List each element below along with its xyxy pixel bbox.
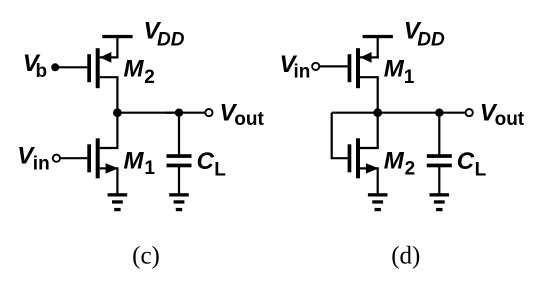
svg-text:(c): (c) (132, 243, 160, 270)
svg-text:DD: DD (157, 30, 185, 51)
svg-text:b: b (36, 61, 48, 82)
svg-text:L: L (214, 159, 226, 180)
svg-text:C: C (457, 148, 475, 175)
svg-text:M: M (384, 148, 405, 175)
svg-text:L: L (475, 159, 487, 180)
svg-text:1: 1 (404, 67, 415, 88)
svg-text:2: 2 (405, 158, 416, 179)
svg-text:in: in (294, 62, 311, 83)
svg-text:2: 2 (144, 67, 155, 88)
svg-text:out: out (495, 109, 525, 130)
svg-text:in: in (33, 153, 50, 174)
svg-text:M: M (124, 55, 145, 82)
svg-text:out: out (234, 109, 264, 130)
svg-text:C: C (197, 148, 215, 175)
svg-text:M: M (384, 55, 405, 82)
svg-text:1: 1 (144, 158, 155, 179)
svg-text:M: M (124, 148, 145, 175)
svg-text:(d): (d) (391, 243, 420, 270)
svg-text:DD: DD (417, 30, 445, 51)
